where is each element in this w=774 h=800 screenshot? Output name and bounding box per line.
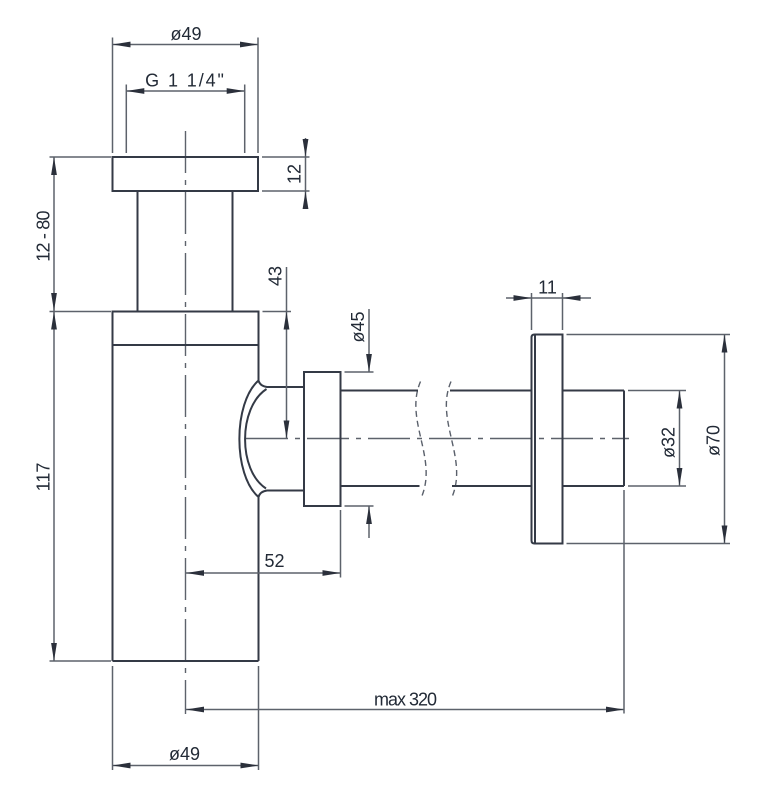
svg-text:12 - 80: 12 - 80 — [34, 210, 54, 261]
svg-text:ø49: ø49 — [170, 24, 201, 44]
svg-text:12: 12 — [285, 164, 305, 184]
svg-text:ø49: ø49 — [169, 744, 200, 764]
svg-text:11: 11 — [538, 278, 557, 298]
svg-text:ø32: ø32 — [659, 427, 679, 458]
svg-text:117: 117 — [34, 463, 54, 492]
svg-text:ø70: ø70 — [704, 425, 724, 456]
svg-text:max 320: max 320 — [374, 690, 437, 710]
svg-text:ø45: ø45 — [348, 311, 368, 342]
svg-text:52: 52 — [264, 551, 284, 571]
svg-text:43: 43 — [266, 266, 286, 286]
svg-text:G 1 1/4": G 1 1/4" — [145, 71, 226, 91]
